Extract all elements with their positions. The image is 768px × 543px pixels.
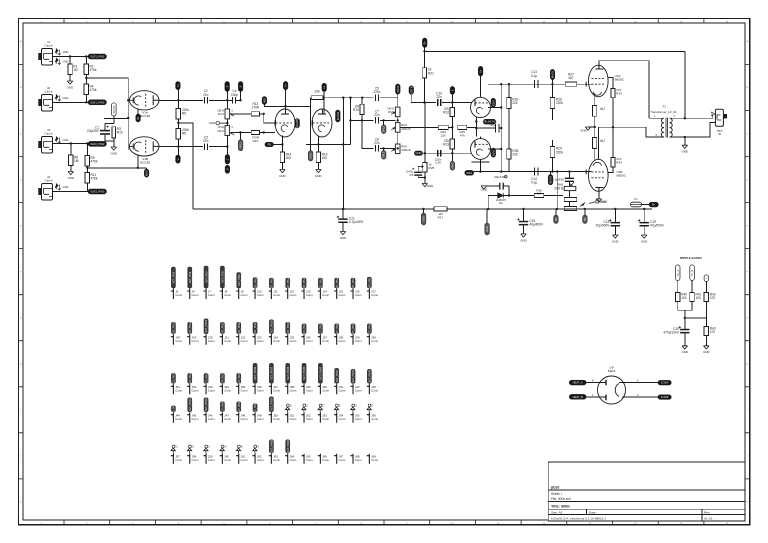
junction link down	[342, 97, 344, 99]
junction J3 wire	[70, 142, 72, 144]
junction cathode rail b	[500, 170, 502, 172]
svg-text:Conn: Conn	[306, 339, 313, 343]
svg-text:22k: 22k	[441, 133, 446, 137]
net label V1A cathode	[136, 114, 141, 122]
triode V3B 6SN7	[471, 139, 491, 160]
svg-text:NET_PIN24: NET_PIN24	[271, 320, 274, 333]
wire V2A cathode pill stub	[274, 144, 283, 146]
svg-text:IN_B: IN_B	[690, 270, 694, 276]
wire R14 bottom	[281, 163, 283, 170]
svg-text:A: A	[20, 40, 22, 43]
svg-text:E: E	[20, 225, 22, 227]
connector J40 with net pill	[318, 363, 330, 394]
connector J10 with net pill	[252, 276, 264, 299]
wire R23 stem	[451, 127, 453, 139]
connector J31 with net pill	[171, 371, 183, 394]
svg-text:R23: R23	[443, 143, 449, 147]
connector J66	[318, 454, 330, 464]
svg-text:HEAT_A: HEAT_A	[573, 381, 583, 385]
wire ripple a stem	[677, 280, 679, 292]
wire fuse right	[642, 204, 650, 206]
capacitor C21 4.7u/400V	[337, 216, 365, 224]
label R18	[536, 188, 542, 195]
svg-text:Conn: Conn	[257, 388, 264, 392]
pin 4 V9	[637, 394, 639, 397]
svg-text:pb10: pb10	[551, 486, 559, 490]
wire C6 top	[417, 166, 420, 168]
wire RV1 stem	[226, 92, 228, 109]
connector J22 with net pill	[236, 321, 248, 345]
wire V1B cathode	[137, 155, 139, 168]
svg-text:Conn: Conn	[208, 458, 215, 462]
svg-text:NET_PIN36: NET_PIN36	[254, 366, 257, 379]
junction C6 bottom	[424, 176, 426, 178]
connector J55 with power flag	[350, 404, 362, 423]
capacitor C17 electrolytic (bias)	[552, 177, 574, 182]
svg-text:20R B: 20R B	[554, 187, 563, 191]
svg-text:Conn: Conn	[339, 417, 346, 421]
svg-text:D: D	[225, 168, 229, 170]
wire RV2 bottom	[226, 136, 228, 155]
wire V3A plate	[480, 76, 482, 97]
svg-text:FB: FB	[267, 142, 271, 146]
svg-text:22n: 22n	[203, 139, 209, 143]
wire divider rail	[400, 126, 452, 128]
svg-text:NET_PIN35: NET_PIN35	[238, 371, 241, 384]
junction bias riser top	[556, 170, 558, 172]
wire link down	[342, 98, 344, 209]
svg-text:Conn: Conn	[273, 293, 280, 297]
junction B+ rail	[423, 50, 425, 52]
svg-text:6B50C: 6B50C	[617, 173, 627, 177]
connector J25 with net pill	[285, 321, 297, 345]
resistor R29 220k	[550, 147, 563, 158]
net label V2A cathode	[265, 142, 274, 147]
svg-text:NET_PIN17: NET_PIN17	[369, 275, 372, 288]
svg-text:22n: 22n	[374, 141, 380, 145]
svg-text:C: C	[20, 133, 22, 135]
svg-text:Conn: Conn	[208, 417, 215, 421]
svg-text:2: 2	[232, 126, 234, 129]
svg-text:GND: GND	[427, 184, 433, 188]
svg-text:R6: R6	[182, 132, 186, 136]
potentiometer RV5 220k B (vertical)	[391, 144, 410, 154]
net label ripple in b	[690, 265, 695, 281]
svg-text:NET_PIN21: NET_PIN21	[222, 321, 225, 334]
resistor R35	[564, 197, 577, 201]
svg-text:6SN7: 6SN7	[491, 99, 495, 106]
connector J51 with power flag	[285, 404, 297, 423]
svg-text:NET_PIN41: NET_PIN41	[336, 369, 339, 382]
svg-text:Conn: Conn	[192, 388, 199, 392]
wire RV2 wiper to R13	[231, 132, 251, 134]
wire ripple join	[678, 302, 692, 311]
wire C18 stem	[614, 209, 616, 222]
triode V2A ECC83 name pill	[295, 119, 300, 129]
wire C9 rail	[423, 152, 473, 154]
label C9	[435, 157, 442, 164]
ground below R1	[67, 81, 73, 89]
pin 2 T1	[674, 114, 676, 118]
title block text	[551, 486, 713, 521]
pin 5 T1	[656, 133, 658, 137]
resistor R1 1M	[68, 64, 78, 75]
title block frame	[548, 462, 745, 521]
svg-text:ECC83: ECC83	[140, 114, 150, 118]
wire y144 rail	[306, 143, 351, 145]
net label below R23	[450, 161, 455, 170]
ground below C15	[520, 234, 526, 242]
svg-text:220k B: 220k B	[401, 148, 410, 152]
ground between 4k7s	[580, 127, 591, 133]
junction cathode rail a	[479, 170, 481, 172]
connector J7 with net pill	[203, 266, 215, 299]
connector J3 (Cinch input)	[38, 128, 52, 153]
J1 shield decorations 2	[55, 58, 68, 64]
svg-text:Conn: Conn	[290, 458, 297, 462]
svg-text:NET_PIN8: NET_PIN8	[222, 271, 225, 283]
ground below C20	[682, 346, 688, 354]
svg-text:Conn: Conn	[241, 458, 248, 462]
wire T1 center tap	[684, 137, 686, 145]
wire C1 network top rail	[105, 122, 114, 124]
fuse F1 on bus	[631, 197, 642, 207]
ground below R10	[111, 147, 117, 155]
capacitor C6 0.47u electrolytic (bypass)	[406, 168, 422, 177]
net label plate supply A	[176, 82, 181, 90]
svg-text:Conn: Conn	[224, 388, 231, 392]
svg-text:NET_PIN5: NET_PIN5	[173, 271, 176, 283]
svg-text:F: F	[20, 271, 22, 273]
connector J4 (Cinch input)	[38, 175, 52, 200]
connector J20 with net pill	[203, 319, 215, 345]
wire R21 down	[424, 78, 426, 102]
svg-text:C: C	[705, 277, 709, 279]
svg-text:R33: R33	[616, 92, 622, 96]
resistor R19 1M	[353, 104, 364, 114]
junction diode row	[508, 194, 510, 196]
wire C15 stem	[523, 209, 525, 221]
svg-text:NET_PIN27: NET_PIN27	[320, 322, 323, 335]
svg-text:NET_PIN40: NET_PIN40	[320, 366, 323, 379]
svg-text:V+: V+	[479, 69, 483, 73]
potentiometer RV9 20R B	[554, 182, 576, 191]
svg-text:I: I	[747, 410, 748, 412]
wire R5 top	[177, 90, 179, 109]
wire R11 bottom lead	[86, 183, 88, 192]
svg-text:Conn: Conn	[339, 293, 346, 297]
wire V1B plate	[159, 146, 203, 148]
resistor R20 22k	[507, 97, 519, 108]
svg-text:NET_PIN28: NET_PIN28	[336, 322, 339, 335]
svg-text:Conn: Conn	[306, 458, 313, 462]
svg-text:Conn: Conn	[371, 417, 378, 421]
label R13 270R	[252, 136, 260, 143]
wire bias mid	[568, 191, 570, 198]
svg-text:K: K	[747, 502, 749, 504]
svg-text:2: 2	[232, 109, 234, 112]
net label V2A plate	[283, 81, 288, 89]
wire T1 primary top	[649, 117, 664, 119]
wire V1A cathode	[137, 109, 139, 115]
svg-text:G: G	[306, 404, 308, 407]
J4 shield decorations	[55, 184, 68, 190]
capacitor C3 22n	[203, 136, 209, 150]
wire pill low stem	[383, 148, 385, 150]
svg-text:NET_PIN9: NET_PIN9	[238, 274, 241, 286]
connector J5 output jack	[715, 109, 727, 136]
wire C15 down	[523, 225, 525, 234]
wire J1 output	[53, 56, 89, 58]
svg-text:0.1µ/630: 0.1µ/630	[552, 177, 564, 181]
svg-text:XLR1_PIN3: XLR1_PIN3	[90, 100, 105, 104]
net label above C13	[550, 69, 555, 79]
junction V2A cathode	[281, 143, 283, 145]
svg-text:Conn: Conn	[175, 388, 182, 392]
arrows at J5	[711, 112, 713, 117]
resistor R25 47k	[458, 125, 467, 129]
net label below R6	[176, 155, 181, 163]
svg-text:22k: 22k	[512, 101, 518, 105]
wire R21 extension down	[424, 103, 426, 163]
J1 shield decorations	[55, 49, 68, 55]
ground below trimmer	[422, 184, 433, 188]
junction RV4 top	[397, 119, 399, 121]
junction bus at 488	[487, 208, 489, 210]
wire V3B cathode bar	[472, 161, 490, 163]
svg-text:SPL1: SPL1	[239, 141, 243, 148]
capacitor C2 22n	[203, 89, 209, 103]
svg-text:C6: C6	[409, 173, 413, 177]
wire lower grid	[585, 171, 591, 173]
wire ground bus	[193, 208, 652, 210]
resistor R18 1M	[534, 193, 544, 197]
connector J67	[334, 454, 346, 464]
svg-text:Conn: Conn	[192, 417, 199, 421]
svg-text:Cinch: Cinch	[45, 44, 53, 48]
pin 2 V9	[592, 394, 594, 397]
svg-text:NET_PIN31: NET_PIN31	[173, 371, 176, 384]
svg-text:Conn: Conn	[192, 293, 199, 297]
junction J2 wire	[85, 101, 87, 103]
wire V3A cathode	[475, 117, 477, 136]
connector J37 with net pill	[269, 363, 281, 394]
svg-text:ECC83: ECC83	[140, 160, 150, 164]
svg-text:XLR2_PIN3: XLR2_PIN3	[90, 190, 105, 194]
net label heater out A	[658, 380, 671, 385]
net label splitter out a	[396, 84, 401, 94]
svg-text:4k7: 4k7	[600, 107, 605, 111]
connector J2 (Cinch input)	[38, 86, 52, 111]
svg-text:1M: 1M	[73, 68, 78, 72]
svg-text:5: 5	[656, 133, 658, 137]
junction BIAS1	[551, 83, 553, 85]
svg-text:Conn: Conn	[257, 339, 264, 343]
net label bias a	[554, 215, 559, 224]
svg-text:H: H	[747, 364, 749, 366]
svg-text:470: 470	[710, 330, 716, 334]
wire splitter rail to C10	[425, 102, 437, 104]
resistor R41 100	[690, 293, 702, 302]
junction V2B cathode	[317, 143, 319, 145]
net label below wiper2	[238, 140, 243, 151]
wire pill BIAS2 stem	[549, 172, 551, 175]
svg-text:G: G	[257, 445, 259, 448]
net label ripple in c	[704, 275, 709, 282]
wire pill BIAS1 stem	[552, 80, 554, 98]
connector J60 with power flag	[220, 445, 232, 464]
power tube U4B 300B lower	[586, 159, 627, 191]
svg-text:F: F	[747, 271, 749, 273]
svg-text:RIPPLE EATER: RIPPLE EATER	[680, 256, 702, 260]
junction V1B net	[127, 117, 129, 119]
net label cathode 2	[144, 169, 149, 177]
potentiometer RV1 1M A (vertical)	[217, 109, 234, 119]
wire V2A plate up	[285, 90, 287, 114]
connector J11 with net pill	[269, 276, 281, 299]
svg-text:BIAS1: BIAS1	[551, 70, 555, 78]
svg-text:40µ/450V: 40µ/450V	[529, 222, 544, 226]
net label splitter mid	[381, 125, 386, 134]
connector J62 with power flag	[252, 445, 264, 464]
svg-text:Sheet: /: Sheet: /	[551, 492, 562, 496]
wire link riser	[310, 98, 312, 107]
wire C20 down	[684, 333, 686, 345]
svg-text:GND: GND	[520, 238, 526, 242]
connector J54 with power flag	[334, 404, 346, 423]
svg-text:GND: GND	[682, 350, 688, 354]
net label XLR2_PIN3	[88, 189, 107, 194]
wire VGRID2 stem	[113, 116, 115, 123]
svg-text:C16: C16	[435, 161, 441, 165]
potentiometer RV2 1M A (vertical)	[217, 125, 234, 135]
svg-text:KiCad E.D.A. eeschema 5.1.10-: KiCad E.D.A. eeschema 5.1.10-88011-1	[551, 516, 606, 520]
wire R8 top lead	[70, 144, 72, 156]
svg-text:Conn: Conn	[355, 388, 362, 392]
svg-text:B: B	[239, 85, 243, 87]
svg-text:47µ: 47µ	[490, 123, 495, 127]
resistor R15 1k5	[316, 152, 327, 163]
wire R12 to V2A grid	[260, 114, 276, 123]
net label below C14	[548, 175, 553, 185]
svg-text:G: G	[355, 404, 357, 407]
wire V2A cathode	[281, 136, 283, 152]
wire R4 bottom lead	[85, 95, 87, 103]
svg-text:GND: GND	[600, 200, 606, 204]
ground below R43	[703, 346, 709, 354]
triode V2A ECC83	[275, 109, 295, 137]
svg-text:B+: B+	[423, 41, 427, 45]
svg-text:Conn: Conn	[322, 339, 329, 343]
capacitor C7 22n	[374, 109, 380, 123]
wire C18 down	[614, 227, 616, 236]
svg-text:1: 1	[654, 114, 656, 118]
svg-text:Conn: Conn	[175, 458, 182, 462]
wire V1A plate	[159, 99, 203, 101]
junction ripple	[684, 317, 686, 319]
svg-text:22µ/25V: 22µ/25V	[87, 129, 100, 133]
wire R2 top lead	[85, 57, 87, 65]
svg-text:4.7µ/400V: 4.7µ/400V	[349, 220, 364, 224]
svg-text:6B50C: 6B50C	[615, 78, 625, 82]
svg-text:475k: 475k	[91, 160, 98, 164]
connector J41 with net pill	[334, 368, 346, 394]
svg-text:J: J	[747, 456, 748, 458]
svg-text:NET_PIN13: NET_PIN13	[303, 276, 306, 289]
svg-text:Conn: Conn	[371, 458, 378, 462]
junction J1 wire b	[85, 55, 87, 57]
net label B+ right	[649, 202, 658, 207]
resistor R21 1k	[422, 68, 434, 79]
resistor R23 22k	[443, 139, 454, 149]
svg-text:22k: 22k	[512, 152, 518, 156]
svg-text:NET_PIN46: NET_PIN46	[205, 398, 208, 411]
wire C6 top lead	[417, 167, 419, 172]
junction R13 out	[263, 131, 265, 133]
net label V2B plate	[322, 83, 327, 91]
label R17	[438, 212, 444, 219]
connector J30 with net pill	[367, 322, 379, 345]
svg-text:G: G	[225, 445, 227, 448]
wire splitter pill a stem	[397, 94, 399, 98]
svg-text:1M: 1M	[74, 159, 79, 163]
svg-text:R34: R34	[616, 161, 622, 165]
wire upper cathode	[594, 93, 596, 105]
connector J46 with net pill	[203, 398, 215, 423]
svg-text:Conn: Conn	[257, 293, 264, 297]
svg-text:Conn: Conn	[306, 417, 313, 421]
svg-text:Conn: Conn	[224, 293, 231, 297]
svg-text:6SN7: 6SN7	[491, 149, 495, 156]
label R24	[440, 130, 446, 137]
gnd flag circle bias	[589, 200, 606, 204]
net label below y144	[308, 151, 313, 161]
junction R5/R6 tap	[177, 122, 179, 124]
net label near C10	[450, 86, 455, 94]
resistor R26 220k	[550, 97, 563, 108]
wire RV3-RV4	[397, 117, 399, 123]
svg-text:G: G	[339, 404, 341, 407]
connector J35 with net pill	[236, 371, 248, 394]
svg-text:Conn: Conn	[241, 388, 248, 392]
wire diode riser	[487, 196, 489, 209]
svg-text:Conn: Conn	[257, 417, 264, 421]
connector J44 with net pill	[171, 402, 183, 423]
resistor R6 220k	[176, 128, 189, 139]
label C12	[490, 120, 496, 127]
junction cathode mid	[594, 126, 596, 128]
svg-text:ECC83: ECC83	[336, 111, 340, 120]
svg-text:ECC83: ECC83	[295, 119, 299, 128]
junction coupling a	[500, 83, 502, 85]
connector J50 with net pill	[269, 397, 281, 423]
svg-text:GND: GND	[63, 60, 69, 64]
capacitor C4 100p	[231, 89, 238, 103]
junction J1 wire	[69, 55, 71, 57]
wire C19 stem	[643, 209, 645, 222]
wire V2B cathode	[317, 136, 319, 152]
svg-text:NET_PIN26: NET_PIN26	[303, 322, 306, 335]
net label bias b	[583, 215, 588, 224]
svg-text:F1: F1	[634, 197, 638, 201]
net label B+ top	[422, 38, 427, 48]
junction V1B cathode tap	[137, 167, 139, 169]
net label ripple in a	[675, 265, 680, 281]
ground below R15	[315, 170, 321, 178]
svg-text:Cinch: Cinch	[45, 179, 53, 183]
connector J64 with net pill	[285, 439, 297, 464]
svg-text:Conn: Conn	[241, 417, 248, 421]
